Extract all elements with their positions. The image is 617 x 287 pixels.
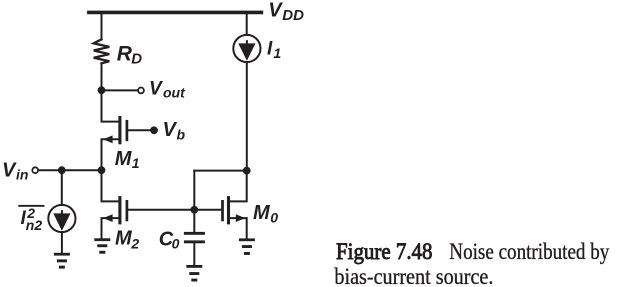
svg-text:in: in [16, 167, 28, 183]
label VDD [268, 0, 304, 24]
svg-text:V: V [149, 78, 163, 99]
transistor M2 source arrow [103, 214, 112, 222]
transistor M1 source wire [102, 139, 119, 170]
wire Vin node down to noise source In2 [61, 170, 63, 205]
wire rail to resistor RD [101, 12, 103, 39]
transistor M2 gate bar [126, 200, 129, 221]
wire VDD rail to I1 [246, 12, 248, 35]
resistor RD zigzag [94, 39, 110, 63]
svg-text:M: M [253, 202, 271, 224]
wire diode connection horizontal to M0 drain column [194, 170, 246, 172]
figure caption [334, 239, 609, 287]
node dot mirror gate node [190, 206, 198, 214]
svg-text:D: D [131, 51, 142, 68]
label Vout [149, 78, 186, 100]
label In2 squared with overline [18, 205, 44, 233]
current source I1 circle [233, 35, 260, 62]
wire Vout node down to M1 drain [102, 90, 119, 121]
wire Vin terminal to node [39, 169, 102, 171]
label M2 [115, 227, 139, 251]
node dot I1-M0 drain junction [243, 167, 251, 175]
transistor M0 source arrow [236, 214, 245, 222]
terminal circle Vout [138, 88, 144, 94]
svg-text:1: 1 [132, 155, 140, 171]
node dot Vin-M1-M2 junction [98, 166, 106, 174]
ground symbol below C0 [186, 265, 202, 282]
label C0 [159, 228, 180, 251]
svg-text:0: 0 [270, 209, 278, 225]
wire I1 to M0 drain junction [246, 62, 248, 171]
svg-text:V: V [268, 0, 283, 21]
In2 arrow [55, 210, 69, 228]
wire mirror node up to diode connection [193, 171, 195, 210]
wire Vout node to Vout terminal [102, 89, 138, 91]
svg-text:DD: DD [282, 7, 304, 24]
svg-text:V: V [163, 119, 178, 141]
svg-text:V: V [2, 160, 17, 182]
label I1 [267, 39, 281, 62]
terminal circle Vin [32, 167, 38, 173]
wire C0 bottom plate to ground [193, 243, 195, 265]
transistor M1 gate wire to Vb [128, 129, 151, 131]
label RD [117, 42, 142, 67]
transistor M2 source wire to ground [102, 218, 119, 238]
svg-text:out: out [163, 84, 186, 100]
transistor M0 channel bar [227, 196, 230, 224]
svg-text:0: 0 [172, 235, 180, 251]
node dot Vb terminal [150, 126, 158, 134]
transistor M0 drain wire [230, 171, 247, 202]
svg-text:M: M [115, 227, 133, 249]
label M0 [253, 202, 278, 225]
svg-text:M: M [115, 148, 133, 170]
svg-text:bias-current source.: bias-current source. [334, 264, 493, 287]
node dot Vin-In2 junction [58, 166, 66, 174]
label Vin [2, 160, 28, 183]
label M1 [115, 148, 140, 171]
label Vb [163, 119, 186, 142]
capacitor C0 top plate [184, 232, 205, 235]
transistor M2 gate wire to mirror node [128, 209, 221, 211]
transistor M1 channel bar [118, 116, 121, 144]
svg-text:2: 2 [130, 236, 139, 252]
wire In2 to ground [61, 232, 63, 253]
node dot Vout [98, 86, 106, 94]
capacitor C0 bottom plate [184, 240, 205, 243]
wire resistor to Vout node [101, 63, 103, 90]
ground symbol below M2 [94, 238, 110, 253]
svg-text:1: 1 [273, 45, 281, 61]
wire mirror node down to capacitor C0 [193, 210, 195, 232]
ground symbol below In2 [54, 253, 70, 269]
transistor M0 gate bar [221, 200, 224, 221]
VDD supply rail [89, 11, 262, 15]
transistor M2 channel bar [118, 196, 121, 224]
svg-text:n2: n2 [26, 217, 43, 233]
I1 arrow [240, 40, 254, 58]
wire Vin node down to M2 drain [102, 170, 119, 201]
svg-text:Figure 7.48: Figure 7.48 [336, 239, 433, 264]
transistor M1 gate bar [126, 120, 129, 141]
svg-text:I: I [267, 39, 273, 60]
ground symbol below M0 [239, 238, 255, 255]
noise current source In2 circle [48, 205, 75, 232]
svg-text:Noise contributed by: Noise contributed by [449, 239, 609, 264]
svg-text:b: b [177, 126, 186, 142]
transistor M1 source arrow [103, 135, 112, 143]
transistor M0 source wire to ground [230, 218, 247, 239]
